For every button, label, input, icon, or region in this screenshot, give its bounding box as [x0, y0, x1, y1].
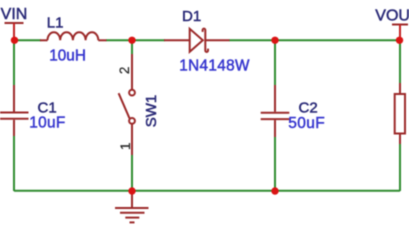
port bar: [5, 22, 24, 24]
svg-text:50uF: 50uF: [288, 115, 325, 132]
junction node C2/GND rail: [271, 187, 278, 194]
lever: [119, 93, 130, 118]
pin 1 lead: [40, 39, 48, 41]
body rectangle: [395, 94, 405, 134]
top plate: [261, 112, 290, 114]
wire: resistor column top: [399, 40, 401, 83]
port VIN: [1, 6, 28, 40]
junction node D1/C2: [271, 37, 278, 44]
wire: C2 column top: [274, 40, 276, 85]
capacitor C1: [0, 85, 29, 136]
winding arcs: [48, 32, 99, 40]
pin 2 lead: [131, 54, 133, 90]
port VOUT: [375, 7, 409, 40]
port stub wire: [13, 23, 15, 40]
junction node SW1/GND: [128, 187, 135, 194]
wire: top rail right segment (D1 out to VOUT): [229, 39, 400, 41]
svg-text:D1: D1: [182, 8, 201, 25]
anode triangle: [190, 29, 203, 52]
top lead: [274, 85, 276, 112]
svg-text:10uF: 10uF: [29, 114, 65, 131]
top lead: [399, 83, 401, 94]
bottom lead: [13, 120, 15, 136]
top contact circle: [129, 90, 135, 96]
ground bar 3: [125, 217, 139, 219]
wire: C2 column bottom: [274, 137, 276, 191]
inductor L1: [40, 32, 107, 40]
wire: left rail lower: [13, 136, 15, 191]
resistor R (load): [395, 83, 405, 144]
bottom lead: [274, 120, 276, 137]
wire: switch column top: [131, 40, 133, 55]
ground bar 2: [120, 212, 145, 214]
anode lead: [164, 39, 190, 41]
wire: left rail upper: [13, 40, 15, 85]
capacitor C2: [261, 85, 290, 137]
wire: resistor column bottom: [399, 144, 401, 191]
ground bar 4: [130, 221, 135, 223]
wire: bottom rail: [14, 190, 400, 192]
port bar: [392, 24, 408, 26]
cathode lead: [205, 39, 229, 41]
top lead: [13, 85, 15, 112]
svg-text:C2: C2: [299, 100, 318, 117]
bottom plate: [261, 118, 290, 120]
svg-text:L1: L1: [47, 14, 64, 31]
diode D1: [164, 29, 230, 52]
svg-text:SW1: SW1: [143, 95, 160, 128]
svg-text:10uH: 10uH: [49, 48, 86, 65]
pin 1 lead: [131, 124, 133, 155]
top plate: [0, 112, 29, 114]
bottom plate: [0, 118, 29, 120]
wire: top rail left segment: [14, 39, 41, 41]
svg-text:VIN: VIN: [1, 6, 28, 23]
junction node L1/SW1: [128, 37, 135, 44]
junction node VOUT/R: [396, 37, 403, 44]
junction node VIN/C1: [11, 37, 18, 44]
port stub wire: [399, 25, 401, 41]
svg-text:VOUT: VOUT: [375, 7, 409, 24]
svg-text:2: 2: [117, 67, 132, 75]
schottky cathode bar: [203, 29, 208, 52]
ground: [115, 191, 149, 222]
bottom contact circle: [129, 118, 135, 124]
pin 2 lead: [98, 39, 106, 41]
wire: switch column bottom: [131, 155, 133, 191]
bottom lead: [399, 134, 401, 145]
ground bar 1: [115, 207, 149, 209]
svg-text:1: 1: [118, 142, 133, 150]
wire: top rail mid segment (L1 out to D1 in): [106, 39, 165, 41]
ground stub: [131, 191, 133, 208]
svg-text:1N4148W: 1N4148W: [179, 57, 250, 74]
switch SW1: [119, 54, 135, 155]
